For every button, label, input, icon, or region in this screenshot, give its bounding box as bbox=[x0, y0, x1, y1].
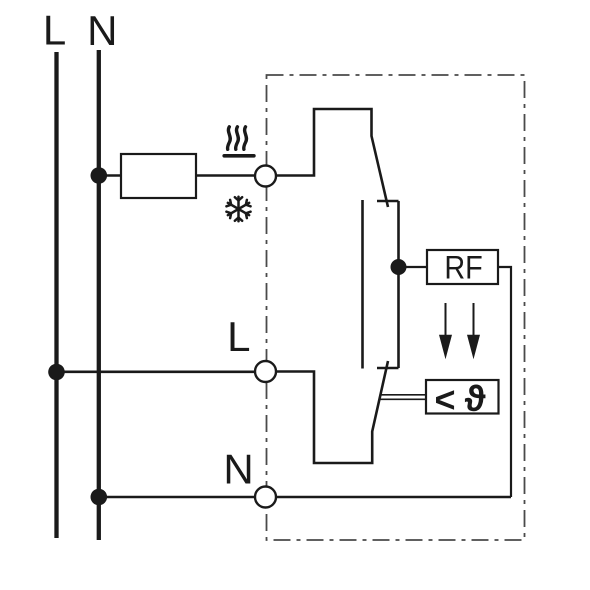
contact rail right bar bbox=[397, 201, 400, 368]
relay contact upper seat bbox=[377, 200, 399, 202]
signal arrow 1 bbox=[439, 303, 452, 359]
resistor load box bbox=[121, 154, 196, 198]
node junction dot on L bbox=[48, 364, 65, 381]
signal arrow 2 bbox=[467, 303, 480, 359]
wire RF box to N rail bbox=[498, 267, 511, 497]
wire N to load resistor to terminal bbox=[99, 174, 255, 177]
terminal circle L bbox=[255, 361, 276, 382]
thermostat link (double line) bbox=[380, 394, 426, 396]
terminal circle N bbox=[255, 487, 276, 508]
device outline (dash-dot border) bbox=[267, 75, 525, 540]
contact rail left bar bbox=[361, 200, 364, 369]
node junction dot on N bbox=[91, 167, 108, 184]
node junction dot RF tap bbox=[391, 259, 407, 275]
wire N terminal into device bbox=[276, 496, 511, 499]
wire N bus bbox=[97, 50, 101, 540]
svg-text:N: N bbox=[223, 445, 253, 492]
wire to RF box bbox=[399, 266, 428, 268]
frost symbol (snowflake) bbox=[226, 197, 251, 222]
heating symbol bbox=[224, 127, 254, 156]
wire terminal to relay switch arm bbox=[276, 109, 388, 207]
wire L bus to terminal bbox=[57, 370, 256, 373]
wire L terminal to thermostat lever bbox=[276, 361, 388, 463]
wire L bus bbox=[54, 52, 58, 538]
node junction dot on N (bottom) bbox=[91, 489, 108, 506]
terminal circle (heater output) bbox=[255, 166, 276, 187]
svg-text:RF: RF bbox=[444, 250, 482, 286]
thermostat box bbox=[426, 380, 499, 414]
svg-text:L: L bbox=[227, 313, 250, 360]
RF receiver box U1 bbox=[427, 250, 498, 284]
thermostat contact lower seat bbox=[377, 367, 399, 369]
wire N bus to terminal bbox=[99, 496, 255, 499]
svg-text:L: L bbox=[43, 7, 66, 54]
svg-text:N: N bbox=[87, 7, 117, 54]
